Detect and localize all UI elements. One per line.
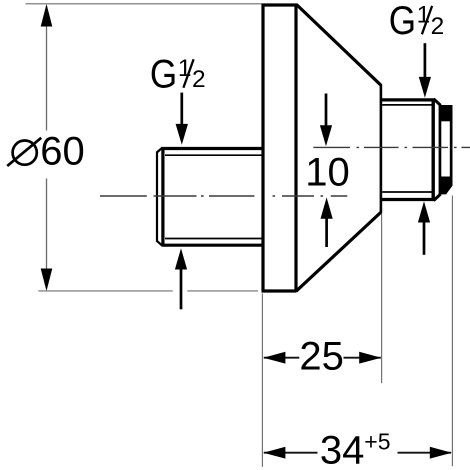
dimension 25 arrow right bbox=[359, 352, 381, 364]
left pipe thread lines bbox=[165, 155, 262, 238]
left thread leader arrow down bbox=[176, 93, 188, 145]
diameter 60 dimension line bbox=[46, 6, 48, 289]
right thread label G 1/2 bbox=[389, 0, 445, 43]
dimension 25 extension line right bbox=[381, 214, 383, 384]
diameter symbol bbox=[7, 138, 41, 166]
dimension 34 line bbox=[264, 452, 451, 454]
svg-text:G: G bbox=[389, 0, 416, 43]
svg-text:2: 2 bbox=[192, 66, 206, 93]
seal ring bbox=[439, 105, 453, 194]
right pipe thread lines bbox=[382, 105, 432, 192]
right pipe body bbox=[381, 99, 441, 201]
cone body bbox=[296, 5, 381, 292]
left thread arrow up bbox=[175, 248, 187, 309]
diameter 60 arrow down bbox=[41, 269, 53, 292]
dimension 34 arrow right bbox=[430, 447, 452, 459]
wall flange plate bbox=[262, 3, 297, 291]
svg-text:34: 34 bbox=[320, 428, 365, 470]
centerline right pipe axis bbox=[313, 146, 470, 148]
offset dimension 10 arrow down bbox=[320, 94, 332, 147]
centerline left pipe axis bbox=[100, 195, 347, 197]
left pipe body bbox=[157, 147, 262, 246]
svg-text:25: 25 bbox=[299, 335, 344, 379]
dimension 25 arrow left bbox=[263, 352, 285, 364]
svg-text:G: G bbox=[150, 52, 177, 96]
diameter 60 arrow up bbox=[41, 4, 53, 27]
right thread arrow up bbox=[418, 201, 430, 255]
left thread label G 1/2 bbox=[150, 52, 206, 96]
svg-text:10: 10 bbox=[305, 150, 350, 194]
dimension 34 arrow left bbox=[263, 447, 285, 459]
svg-text:2: 2 bbox=[431, 13, 445, 40]
diameter 60 extension line top bbox=[26, 3, 262, 5]
svg-text:+5: +5 bbox=[364, 429, 390, 455]
offset dimension 10 arrow up bbox=[321, 197, 333, 247]
diameter 60 extension line bottom bbox=[38, 290, 258, 292]
shared extension line left bbox=[261, 294, 263, 467]
dimension 25 line bbox=[264, 357, 381, 359]
svg-text:60: 60 bbox=[40, 129, 85, 173]
dimension 34 extension line right bbox=[451, 196, 453, 467]
right thread leader arrow down bbox=[419, 43, 431, 98]
